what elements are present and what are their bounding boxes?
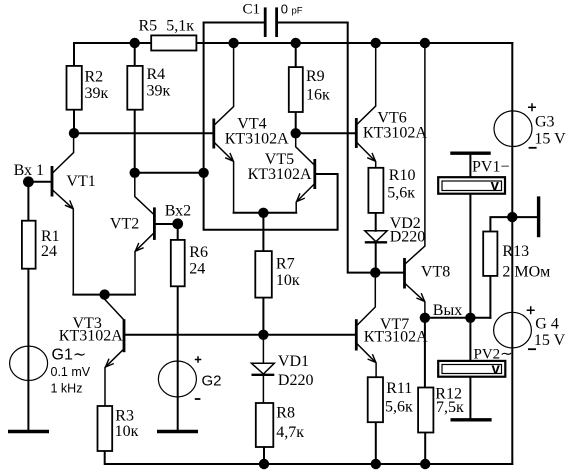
voltmeter PV2 box [438,361,505,377]
wire: C1 right plate branch down to node(375.3,272.6) [278,23,376,273]
svg-text:G2: G2 [202,372,222,389]
svg-text:C1: C1 [243,2,261,18]
transistor VT1 [52,133,74,294]
wire: R12 bottom to rail [424,433,426,465]
svg-text:КТ3102А: КТ3102А [225,130,289,147]
wire: node(134.7,172.8) to node(203.6,172.8) [135,172,204,174]
svg-text:КТ3102А: КТ3102А [59,328,123,345]
svg-text:R13: R13 [502,243,529,260]
wire: R4 bottom to node (134.7,172.8) [134,110,136,173]
svg-text:7,5к: 7,5к [436,399,464,416]
plus sign G2 [195,356,202,363]
wire: VT1/VT2 emitter bus y=294.6 [73,294,135,296]
wire: Vyh node down to R12 [424,318,426,388]
svg-text:0.1 mV: 0.1 mV [51,365,91,379]
svg-text:1 kHz: 1 kHz [51,382,83,396]
svg-text:4,7к: 4,7к [276,424,304,441]
svg-text:КТ3102А: КТ3102А [364,329,428,346]
resistor R2 [67,66,82,110]
wire: PV1 bar to box [469,155,471,177]
svg-text:R7: R7 [276,256,295,273]
wire: PV2 box down to ground [469,377,471,419]
wire: R9 bottom to node [295,112,297,133]
transistor VT5 [296,133,315,213]
transistor VT6 [356,43,375,168]
battery G4 circle [494,312,532,348]
svg-text:G3: G3 [535,113,555,130]
battery G3 circle [494,111,532,147]
svg-text:15 V: 15 V [534,130,566,147]
wire: node(512,217) to chassis bar [512,216,537,218]
wire: Bx2 node down to R6 [177,224,179,240]
wire: VT5 base loop node(203.6,172.8) down right up [204,173,338,230]
resistor R13 [483,232,497,276]
svg-text:10к: 10к [276,272,300,289]
right chassis bar at node(512,217) [537,196,540,237]
wire: VT8 base wire [375,272,404,274]
svg-text:24: 24 [189,260,205,277]
ground under PV2 [451,418,492,421]
svg-text:R10: R10 [389,167,416,184]
svg-text:v: v [492,361,501,378]
svg-text:G 4: G 4 [535,316,559,333]
resistor R3 [98,406,113,451]
minus sign G4 [528,348,536,350]
wire: Bx1 node down to R1 [27,182,29,221]
node junction dots [23,38,518,469]
svg-text:D220: D220 [278,372,314,389]
wire: R8 bottom to rail [263,447,265,464]
resistor R6 [171,240,185,286]
wire: right vertical G3/G4 column x=512 [511,43,513,464]
resistor R7 [255,251,271,298]
transistor VT2 [135,173,155,295]
svg-text:39к: 39к [147,83,171,100]
svg-text:pF: pF [292,6,303,17]
svg-text:Вх 1: Вх 1 [14,162,44,179]
svg-text:16к: 16к [306,87,330,104]
wire: R2 top stub [73,43,75,66]
generator G2 circle [158,361,196,397]
resistor R11 [368,377,383,422]
svg-text:VT8: VT8 [421,263,450,280]
wire: Vyh output wire y=317.8 [425,317,491,319]
svg-text:КТ3102А: КТ3102А [248,166,312,183]
wire: PV1 box down to Vyh node [469,194,471,318]
svg-text:15 V: 15 V [534,332,566,349]
svg-text:Вых: Вых [433,302,462,319]
wire: R9 top stub [295,43,297,67]
svg-text:R4: R4 [147,66,166,83]
svg-text:10к: 10к [115,423,139,440]
capacitor C1 [265,7,276,37]
transistor VT3 [105,295,124,406]
wire: VT3-VT7 base bus y=334.8 [124,334,356,336]
resistor R9 [289,67,303,112]
wire: R7 bottom to mid bus node [262,298,264,335]
svg-text:КТ3102А: КТ3102А [363,124,427,141]
resistor R10 [368,168,383,213]
wire: positive supply rail y=43 [74,42,512,44]
minus sign G3 [529,147,537,149]
svg-text:VT2: VT2 [110,216,139,233]
svg-text:39к: 39к [85,85,109,102]
wire: node(512,217) to R13 top [490,217,512,231]
svg-text:R5: R5 [139,18,158,35]
plus sign G4 [527,306,535,314]
ground under G1 [8,430,49,433]
svg-text:R11: R11 [386,380,412,397]
wire: VT2 base wire [154,223,172,225]
transistor VT7 [356,273,376,378]
wire: R2 bottom to node [73,110,75,134]
svg-text:5,6к: 5,6к [385,398,413,415]
wire: R6 bottom through G2 to ground [177,286,179,430]
svg-text:R2: R2 [85,69,104,86]
wire: Vyh node down to PV2 box [469,318,471,361]
wire: Bx1 node to VT1 base [28,181,52,183]
wire: bottom rail [105,451,513,464]
wire: VT6 base wire [296,132,357,134]
resistor R5 [151,35,196,50]
resistor R4 [127,66,142,110]
wire: C1 left plate branch [204,23,264,173]
wire: emitter bus node down to R7 [262,213,264,251]
transistor VT4 [214,43,234,213]
wire: VT4/VT5 emitter bus y=212.8 [234,212,297,214]
svg-text:G1∼: G1∼ [52,347,87,364]
svg-text:VT1: VT1 [66,173,95,190]
PV1 top chassis bar [450,151,490,154]
transistor VT8 [405,43,425,318]
resistor R1 [22,221,36,269]
resistor R8 [256,403,273,447]
minus sign G2 [195,398,201,400]
svg-text:0: 0 [281,2,288,17]
svg-text:24: 24 [41,243,57,260]
wire: R1 bottom through G1 to ground [27,269,29,431]
wire: R4 top stub [134,43,136,66]
svg-text:R9: R9 [306,68,325,85]
diode VD2 [365,231,387,243]
wire: R10 bottom to VD2 [375,213,377,231]
wire: R11 bottom to rail [375,422,377,464]
voltmeter PV1 box [438,177,505,194]
svg-text:2 МОм: 2 МОм [502,264,550,281]
svg-text:VD1: VD1 [278,353,309,370]
svg-text:5,6к: 5,6к [387,185,415,202]
svg-text:R6: R6 [189,244,208,261]
svg-text:R8: R8 [276,405,295,422]
resistor R12 [418,388,433,433]
wire: VT4 base wire y=133.2 [74,132,214,134]
ground under G2 [157,430,198,433]
plus sign G3 [528,103,536,111]
generator G1 circle [10,346,48,380]
diode VD1 [252,335,275,403]
svg-text:PV1−: PV1− [472,158,509,175]
svg-text:v: v [491,177,500,194]
svg-text:Вх2: Вх2 [165,202,191,219]
svg-text:D220: D220 [390,229,426,246]
svg-text:5,1к: 5,1к [166,18,194,35]
wire: VD2 cathode to node(375.3,272.6) [375,242,377,272]
wire: R13 bottom corner [489,276,491,318]
